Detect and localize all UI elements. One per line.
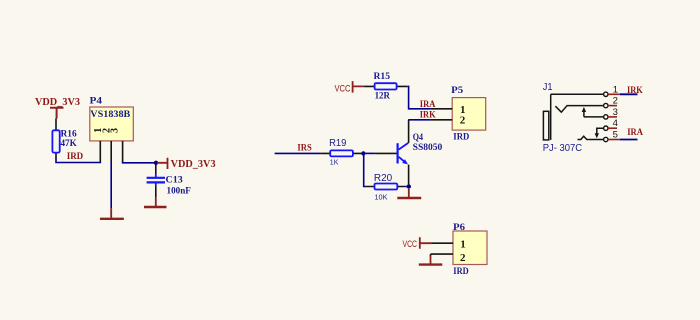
svg-text:VCC: VCC [335,84,351,94]
wire node B down to R20 [364,156,366,187]
ground under Q4 emitter [397,189,421,198]
svg-text:1K: 1K [330,158,339,167]
pin 5 of J1 ring contact [578,130,620,142]
power flag VCC (top middle) [335,81,365,93]
pin 2 of P4 [102,128,113,162]
pin 2 of P5 [431,114,466,126]
svg-text:IRS: IRS [297,143,311,153]
svg-text:IRD: IRD [453,132,469,142]
svg-text:3: 3 [110,128,121,133]
svg-text:VDD_3V3: VDD_3V3 [35,97,80,108]
wire P6 pin2 to ground [430,254,432,256]
wire net IRK (Q4 collector to P5 pin2) [408,119,431,121]
svg-text:VDD_3V3: VDD_3V3 [171,159,216,170]
wire net IRD (R16 to P4 pin1) [56,157,100,162]
svg-text:IRD: IRD [67,152,84,162]
connector J1 (audio jack PJ-307C) [543,84,619,141]
svg-text:2: 2 [460,114,466,126]
svg-text:5: 5 [613,130,618,141]
wire net IRS [275,152,321,154]
svg-text:P5: P5 [451,86,463,96]
power flag VDD_3V3 right of node A [157,158,216,170]
sleeve stem [550,94,552,140]
power flag VCC (bottom, P6) [403,237,432,249]
svg-text:10K: 10K [375,192,388,201]
capacitor C13 [147,165,191,198]
svg-text:1: 1 [460,238,466,250]
connector P5 [431,98,486,131]
junction node A [154,161,158,165]
wire net IRA at J1 pin5 [620,139,638,141]
pin 4 of J1 switch arrow [595,118,618,138]
svg-text:R15: R15 [374,72,391,82]
ground under P6 pin2 [419,255,443,265]
svg-text:R19: R19 [329,138,347,149]
pin 2 of J1 tip contact [555,96,617,113]
pin 1 of J1 [551,84,620,96]
svg-text:3: 3 [613,107,618,118]
wire R20 to node C [406,186,407,188]
power flag VDD_3V3 top-left [35,97,80,119]
wire P4 pin2 to ground [110,162,112,209]
svg-text:IRA: IRA [627,128,643,138]
pin 1 of P4 [93,128,104,162]
resistor R16 [52,119,77,158]
svg-text:SS8050: SS8050 [413,143,443,153]
ground under C13 [144,198,167,207]
svg-text:100nF: 100nF [167,186,192,196]
svg-text:IRK: IRK [627,86,643,96]
resistor R15 [364,72,407,101]
svg-text:47K: 47K [61,139,78,149]
svg-text:PJ- 307C: PJ- 307C [543,143,582,154]
ground under P4 pin2 [100,208,124,219]
pin 3 of J1 switch arrow [582,107,618,119]
junction node C (emitter node) [407,184,411,188]
junction node B (base node) [361,151,365,155]
wire net IRA (R15 to P5 pin1) [407,86,431,108]
svg-text:1: 1 [613,84,618,95]
pin 1 of P6 [432,238,466,250]
pin 3 of P4 [110,128,123,161]
wire P4 pin3 to node A [123,161,156,163]
transistor Q4 [376,120,443,185]
resistor R20 [365,173,406,201]
pin 2 of P6 [431,252,467,264]
connector P4 [90,107,134,162]
svg-text:C13: C13 [166,176,184,186]
resistor R19 [320,138,361,167]
svg-text:2: 2 [460,252,466,264]
svg-text:R20: R20 [374,173,393,184]
connector P6 [431,231,488,265]
svg-text:J1: J1 [543,82,553,93]
sleeve body [543,111,548,140]
svg-text:12R: 12R [375,91,391,101]
svg-text:P4: P4 [90,96,103,106]
svg-text:2: 2 [613,96,618,107]
svg-text:4: 4 [613,118,618,129]
svg-text:VCC: VCC [403,239,418,249]
svg-text:VS1838B: VS1838B [90,110,131,120]
svg-text:IRD: IRD [453,267,469,277]
svg-text:Q4: Q4 [413,133,424,143]
wire node B to Q4 base [366,152,376,154]
pin 1 of P5 [431,104,466,116]
svg-text:R16: R16 [61,130,77,140]
wire net IRK at J1 pin1 [620,93,638,95]
